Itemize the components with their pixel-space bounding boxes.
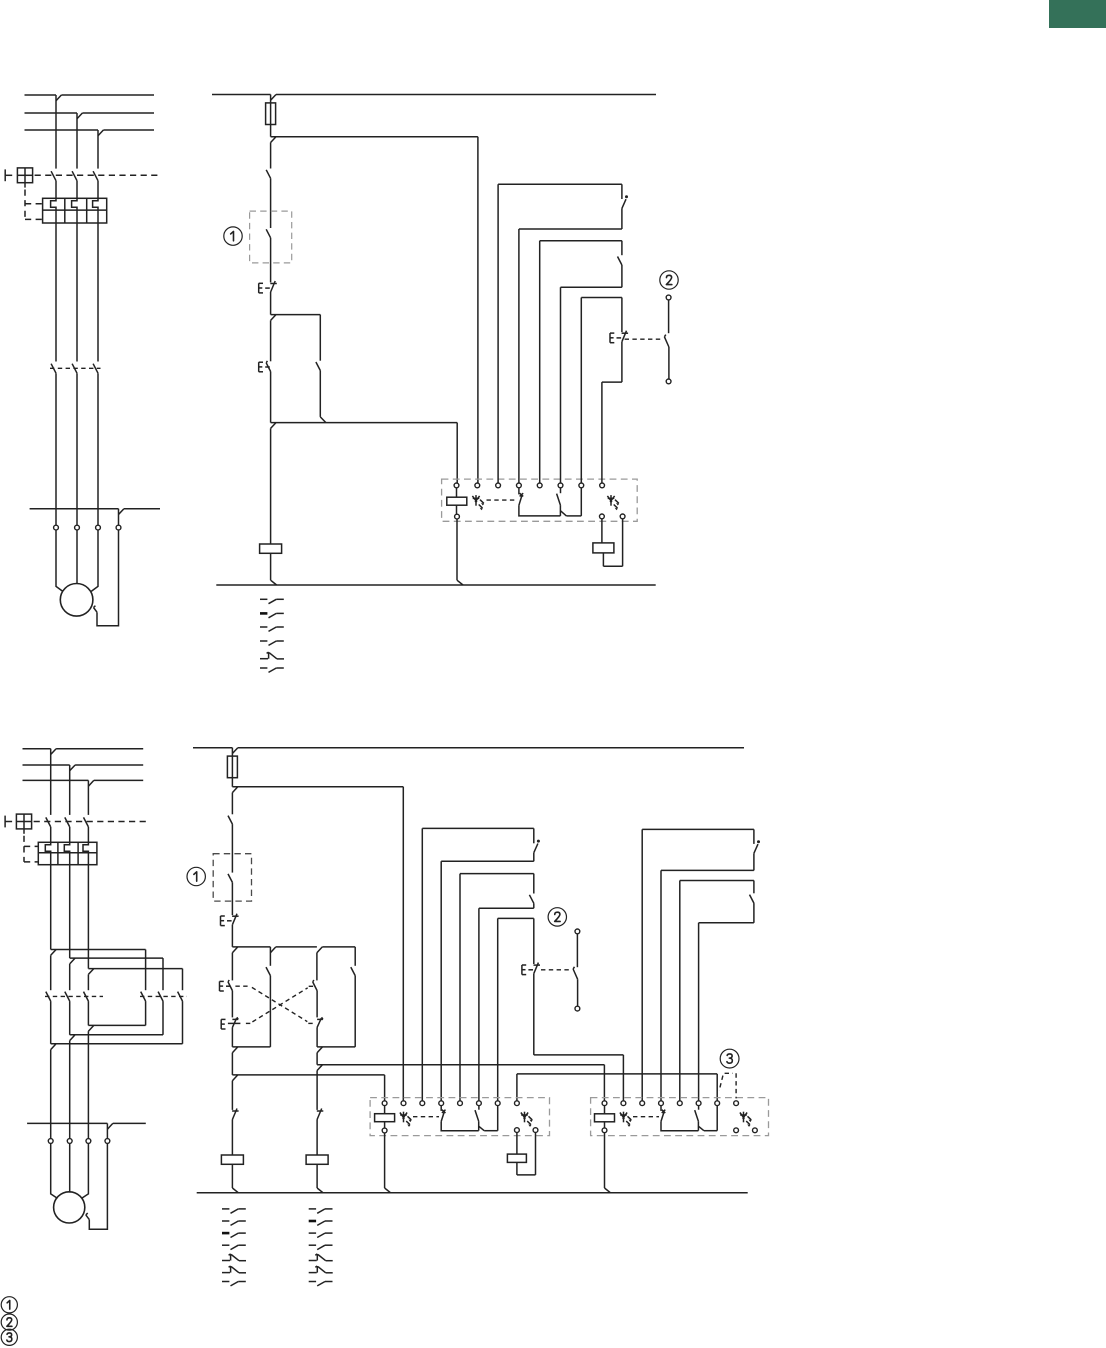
relay changeover contact t4 box1 (bottom) [440, 1106, 442, 1111]
contactor K2 main contact 1 (bottom) [141, 992, 146, 1002]
relay coil inside box (top) [456, 488, 458, 497]
stop2 E label (bottom cascade) [521, 965, 523, 975]
marker circled 1 (bottom) [187, 867, 205, 885]
branch to relay terminal 2 (top) [271, 136, 478, 138]
contactor Q11 main contact 1 (top) [51, 364, 56, 374]
wire phase1 to branch row (bottom) [50, 865, 52, 950]
dashed actuation link to button 2 (top) [625, 338, 662, 340]
dashed actuation inside box (top) [487, 499, 517, 501]
contactor coil Q11 (top) [270, 428, 272, 544]
aux legend K1 row 5 NC (bottom) [222, 1260, 230, 1262]
fuse F0 (top) [270, 95, 272, 103]
wire phase 2 overload to contactor (top) [76, 223, 78, 362]
overload heater element phase 3 (bottom) [83, 842, 88, 864]
auxiliary NO contact box2 cascade (bottom) [753, 881, 755, 894]
branch to relay box1 terminal 2 (bottom) [232, 786, 403, 788]
aux legend K2 row 6 NC (bottom) [309, 1272, 317, 1274]
interlock NC contact A on V3 (bottom) [316, 953, 318, 981]
cascade wire box1 t3 (bottom) [422, 827, 534, 829]
wire fuse to contact (bottom) [231, 793, 233, 815]
forward button E label (bottom) [219, 981, 221, 991]
box2 bottom terminal b (bottom) [753, 1128, 758, 1133]
return row A (bottom) [145, 1001, 147, 1025]
relay contact t6 blade box1 (bottom) [478, 1106, 480, 1110]
wire supply line L3 (top diagram) [25, 129, 99, 131]
wire to motor terminal 4 (top) [30, 508, 119, 510]
wire phase2 to branch row (bottom) [69, 865, 71, 958]
wire tap L1 down to breaker (bottom) [50, 749, 52, 815]
marker circled 3 (bottom) [720, 1049, 739, 1068]
dashed option box 1 (top) [250, 211, 292, 263]
limit contact with dot box2 (bottom) [753, 829, 755, 844]
interlock bottom link V1-V2 (bottom) [232, 1046, 270, 1048]
dashed actuation inside box2 (bottom) [633, 1116, 659, 1118]
relay terminal 1 circle (top) [454, 483, 459, 488]
box1 terminal 5 circle (bottom) [458, 1101, 463, 1106]
contactor K2 main contact 2 (bottom) [158, 992, 163, 1002]
wire phase1 down to contact (bottom) [50, 955, 52, 990]
breaker contact Q1/3 (top) [93, 171, 98, 181]
breaker trip dashed vertical (bottom) [23, 836, 25, 862]
start button NO contact (top) [270, 320, 272, 361]
motor terminal 4 (bottom) [105, 1139, 110, 1144]
relay contact t6 blade box2 (bottom) [698, 1106, 700, 1110]
stop2 NC contact (bottom cascade) [533, 918, 535, 964]
motor lead W (bottom) [82, 1143, 89, 1198]
contactor Q11 main contact 3 (top) [93, 364, 98, 374]
feed wire to box2 terminal 1 (bottom) [317, 1064, 604, 1066]
interlock dashed cross line 1 (bottom) [235, 985, 251, 987]
relay terminal 8 circle (top) [600, 483, 605, 488]
limit contact with dot box1 (bottom) [533, 828, 535, 843]
feed wire stop2 to box2 terminal 2 (bottom) [534, 1054, 624, 1056]
aux legend K2 row 7 NO (bottom) [309, 1281, 316, 1283]
interlock top link V3-V4 (bottom) [322, 946, 355, 948]
control supply rail (bottom) [193, 747, 232, 749]
cascade wire box1 t4 (bottom) [441, 860, 534, 862]
flash indicator symbol 1 (top box) [475, 495, 477, 506]
motor lead U (top) [56, 530, 63, 591]
box2 terminal 1 circle (bottom) [602, 1101, 607, 1106]
wire V3 down to aux contact (bottom) [316, 1071, 318, 1110]
breaker contact Q1/3 (bottom) [84, 817, 89, 827]
control supply rail (top) [212, 94, 271, 96]
relay contact t6 blade (top box) [560, 488, 562, 493]
breaker trip dashed line (top) [35, 174, 160, 176]
auxiliary contact Q11/14 (top) [266, 170, 270, 179]
contactor K2 mechanical link dashes (bottom) [140, 995, 187, 997]
branch row to reverse contactor 2 (bottom) [70, 957, 163, 959]
flash indicator 2 box1 (bottom) [524, 1112, 526, 1123]
box1 terminal 8 circle (bottom) [515, 1101, 520, 1106]
contactor K1 main contact 2 (bottom) [65, 992, 70, 1002]
relay terminal 6 circle (top) [558, 483, 563, 488]
wire V1 down to aux contact (bottom) [231, 1081, 233, 1110]
reset E label (top cascade) [609, 333, 611, 343]
aux contact legend row 6 NO (top) [260, 667, 267, 669]
box1 terminal 6 circle (bottom) [477, 1101, 482, 1106]
wire riser box1 terminal 2 (bottom) [402, 787, 404, 1101]
aux contact legend row 2 NO (top) [260, 612, 267, 615]
interlock dashed cross line 2 (bottom) [246, 1022, 252, 1024]
marker circled 2 (top) [660, 271, 678, 289]
flash indicator 1 box2 (bottom) [623, 1112, 625, 1123]
aux legend K1 row 6 NC (bottom) [222, 1272, 230, 1274]
cascade wire t3 (top) [497, 184, 499, 483]
contactor K1 mechanical link dashes (bottom) [45, 995, 103, 997]
cascade wire t6 (top) [561, 286, 622, 288]
wire tap L3 down to breaker (bottom) [87, 780, 89, 815]
stop button NC contact (top) [270, 283, 277, 285]
wire phase2 rowB to motor (bottom) [69, 1041, 71, 1139]
cascade wire box1 t5 (bottom) [460, 873, 534, 875]
wire phase2 contact to rowB (bottom) [69, 1001, 71, 1035]
relay changeover contact t4 (top box) [518, 488, 520, 495]
relay terminal 5 circle (top) [537, 483, 542, 488]
wire coil feed horizontal (top) [271, 422, 458, 424]
motor M1 circle (bottom) [54, 1192, 85, 1223]
motor terminal 1 (bottom) [48, 1139, 53, 1144]
aux legend K1 row 4 NO (bottom) [222, 1244, 229, 1246]
box1 bottom terminal b (bottom) [533, 1128, 538, 1133]
contactor Q11 mechanical link dashes (top) [50, 367, 101, 369]
circuit-breaker operator symbol (top) [4, 169, 6, 181]
box1 terminal 2 circle (bottom) [401, 1101, 406, 1106]
wire tap L1 down to breaker (top) [55, 95, 57, 169]
contactor coil K1 (bottom) [221, 1155, 243, 1164]
contactor coil K2 (bottom) [306, 1155, 328, 1164]
relay changeover contact t4 box2 (bottom) [660, 1106, 662, 1111]
box2 terminal 2 circle (bottom) [621, 1101, 626, 1106]
remote button 2 (bottom) [575, 929, 580, 934]
self-hold contact V2 branch (bottom) [269, 947, 271, 966]
motor lead V (top) [76, 530, 78, 583]
breaker trip dashed line (bottom) [34, 821, 146, 823]
contactor Q11 main contact 2 (top) [72, 364, 77, 374]
cascade wire box2 t5 (bottom) [680, 880, 754, 882]
stop button NC contact (bottom) [232, 915, 239, 917]
aux NC contact above coil K1 (bottom) [232, 1110, 239, 1112]
relay coil inside box1 (bottom) [384, 1106, 386, 1114]
start button E label (top) [258, 362, 260, 372]
flash indicator symbol 2 (top box) [610, 495, 612, 506]
cascade wire box1 t6 (bottom) [479, 907, 534, 909]
cascade wire box2 t4 (bottom) [661, 869, 754, 871]
aux legend K2 row 3 NO (bottom) [309, 1232, 316, 1234]
marker circled 1 (top) [224, 227, 242, 245]
breaker contact Q1/2 (bottom) [65, 817, 70, 827]
control bottom rail (bottom) [197, 1192, 748, 1194]
motor lead V (bottom) [69, 1143, 71, 1192]
contact inside option box (bottom) [228, 874, 232, 883]
feed wire to box1 terminal 1 (bottom) [232, 1074, 384, 1076]
box1 bottom terminal a (bottom) [515, 1128, 520, 1133]
breaker contact Q1/2 (top) [72, 171, 77, 181]
box2 terminal 3 circle (bottom) [640, 1101, 645, 1106]
motor terminal 3 (bottom) [86, 1139, 91, 1144]
wire supply line L1 (bottom diagram) [23, 748, 51, 750]
marker circled 2 (bottom) [548, 908, 566, 926]
breaker contact Q1/1 (top) [51, 171, 56, 181]
relay terminal 2 circle (top) [475, 483, 480, 488]
cascade wire t5 (top) [539, 241, 541, 483]
wire phase 1 overload to contactor (top) [55, 223, 57, 362]
dashed option box 1 (bottom) [213, 854, 251, 901]
box1 terminal 4 circle (bottom) [439, 1101, 444, 1106]
reset NC contact (top cascade) [621, 298, 623, 333]
motor terminal 2 (top) [75, 525, 80, 530]
branch row to reverse contactor 1 (bottom) [51, 949, 146, 951]
cascade wire box1 t7 (bottom) [498, 917, 534, 919]
wire riser terminal 2 (top) [477, 137, 479, 483]
wire supply line L3 (bottom diagram) [23, 779, 89, 781]
aux legend K2 row 5 NC (bottom) [309, 1260, 317, 1262]
interlock top link V1-V2 (bottom) [232, 946, 270, 948]
box2 terminal 5 circle (bottom) [677, 1101, 682, 1106]
relay device dashed box 2 (bottom) [591, 1098, 769, 1136]
wire supply line L1 (top diagram) [25, 94, 57, 96]
aux legend K1 row 1 NO (bottom) [222, 1208, 229, 1210]
motor terminal 2 (bottom) [67, 1139, 72, 1144]
wire V3 to feed corner (bottom) [316, 1053, 318, 1065]
aux legend K2 row 2 NO (bottom) [309, 1220, 316, 1223]
control bottom rail (top) [216, 584, 655, 586]
dashed actuation link to button 2 (bottom) [541, 969, 569, 971]
junction self-hold branch top (top) [271, 314, 321, 316]
wire fuse to contact (top) [270, 143, 272, 169]
relay coil inside box2 (bottom) [604, 1106, 606, 1114]
wire phase3 rowA to motor (bottom) [87, 1031, 89, 1138]
aux legend K1 row 2 NO (bottom) [222, 1220, 229, 1222]
remote button 2 (top) [666, 295, 671, 300]
aux contact legend row 3 NO (top) [260, 626, 267, 628]
reset button 3 dashed actuation (bottom) [725, 1072, 733, 1074]
return row B (bottom) [162, 1001, 164, 1035]
box2 terminal 6 circle (bottom) [696, 1101, 701, 1106]
motor lead U (bottom) [51, 1143, 58, 1198]
motor terminal 3 (top) [96, 525, 101, 530]
relay terminal 7 circle (top) [579, 483, 584, 488]
self-hold contact Q11/13-14 branch (top) [319, 315, 321, 361]
wire riser relay terminal 1 (top) [456, 423, 458, 483]
cascade wire box2 t6 (bottom) [699, 922, 754, 924]
return row C (bottom) [182, 1001, 184, 1044]
green page tab [1049, 0, 1106, 28]
breaker contact Q1/1 (bottom) [46, 817, 51, 827]
wire supply line L2 (top diagram) [25, 112, 78, 114]
motor terminal 4 (top) [116, 525, 121, 530]
branch row to reverse contactor 3 (bottom) [88, 968, 182, 970]
auxiliary NO contact box1 cascade (bottom) [533, 874, 535, 894]
wire supply line L2 (bottom diagram) [23, 764, 70, 766]
wire phase1 contact to rowC (bottom) [50, 1001, 52, 1044]
relay bottom terminal a (top box) [600, 514, 605, 519]
box1 terminal 3 circle (bottom) [420, 1101, 425, 1106]
overload heater element phase 3 (top) [93, 198, 98, 223]
link wire box1 t8 to box2 t7 (bottom) [517, 1073, 717, 1075]
limit contact with dot (top) [621, 184, 623, 199]
interlock top link V2-V3 (bottom) [276, 946, 317, 948]
reset coil loop box1 (bottom) [516, 1133, 518, 1155]
aux contact legend row 4 NO (top) [260, 640, 267, 642]
overload relay box (top) [43, 198, 107, 223]
motor terminal 1 (top) [54, 525, 59, 530]
box2 terminal 4 circle (bottom) [659, 1101, 664, 1106]
cascade wire t7 (top) [580, 298, 582, 484]
box2 terminal 8 circle (bottom) [734, 1101, 739, 1106]
wire phase1 rowC to motor (bottom) [50, 1050, 52, 1139]
wire phase3 to branch row (bottom) [87, 865, 89, 969]
wire phase2 down to contact (bottom) [69, 964, 71, 990]
aux legend K2 row 4 NO (bottom) [309, 1244, 316, 1246]
flash indicator 1 box1 (bottom) [403, 1112, 405, 1123]
aux legend K1 row 3 NO (bottom) [222, 1232, 229, 1235]
relay device dashed box 1 (bottom) [370, 1098, 549, 1136]
wire tap L2 down to breaker (bottom) [69, 765, 71, 815]
wire tap L2 down to breaker (top) [76, 113, 78, 169]
cascade wire box2 t3 (bottom) [642, 828, 754, 830]
self-hold contact V4 branch (bottom) [354, 947, 356, 966]
box2 bottom terminal a (bottom) [734, 1128, 739, 1133]
aux legend K1 row 7 NO (bottom) [222, 1281, 229, 1283]
box1 terminal 1 circle (bottom) [382, 1101, 387, 1106]
footnote marker circled 2 [1, 1314, 17, 1330]
cascade wire t4 (top) [519, 228, 622, 230]
reset coil loop (top box) [601, 519, 603, 543]
wire phase 3 overload to contactor (top) [97, 223, 99, 362]
overload relay box (bottom) [38, 842, 97, 864]
aux NC contact above coil K2 (bottom) [317, 1110, 324, 1112]
footnote marker circled 3 [1, 1329, 17, 1345]
wire phase3 contact to rowA (bottom) [87, 1001, 89, 1025]
relay terminal 4 circle (top) [517, 483, 522, 488]
aux legend K2 row 1 NO (bottom) [309, 1208, 316, 1210]
overload heater element phase 2 (bottom) [64, 842, 69, 864]
motor lead thermistor (bottom) [89, 1143, 107, 1229]
wire tap L3 down to breaker (top) [97, 130, 99, 169]
relay device dashed box (top) [442, 479, 638, 521]
contactor K2 main contact 3 (bottom) [178, 992, 183, 1002]
auxiliary contact (bottom main) [228, 816, 232, 825]
circuit-breaker operator symbol (bottom) [4, 816, 6, 828]
contactor K1 main contact 1 (bottom) [46, 992, 51, 1002]
interlock bottom link V3-V4 (bottom) [317, 1046, 355, 1048]
wire phase3 down to contact (bottom) [87, 974, 89, 990]
wire V1 to feed corner (bottom) [231, 1053, 233, 1075]
overload heater element phase 1 (top) [51, 198, 56, 223]
relay bottom terminal b (top box) [620, 514, 625, 519]
dashed actuation inside box1 (bottom) [413, 1116, 439, 1118]
auxiliary NO contact cascade B (top) [621, 241, 623, 256]
fuse F0 (bottom) [231, 748, 233, 756]
footnote marker circled 1 [1, 1297, 17, 1313]
motor M1 circle (top) [60, 584, 93, 617]
motor lead thermistor (top) [97, 530, 119, 626]
flash indicator 2 box2 (bottom) [743, 1112, 745, 1123]
reverse button E label (bottom) [220, 1019, 222, 1029]
interlock NC contact B on V3 (bottom) [317, 1018, 323, 1020]
stop button E label (top) [258, 283, 260, 293]
wire to motor terminal 4 (bottom) [27, 1122, 107, 1124]
aux contact legend row 1 NO (top) [260, 598, 267, 600]
relay terminal 3 circle (top) [496, 483, 501, 488]
cascade wire t8 (top) [602, 381, 622, 383]
overload heater element phase 2 (top) [72, 198, 77, 223]
motor lead W (top) [91, 530, 98, 591]
forward button NO contact on V1 (bottom) [231, 953, 233, 981]
aux contact legend row 5 NC (top) [260, 658, 268, 660]
box1 terminal 7 circle (bottom) [495, 1101, 500, 1106]
breaker trip dashed vertical to overload (top) [24, 190, 26, 220]
stop button E label (bottom) [220, 916, 222, 926]
contactor K1 main contact 3 (bottom) [84, 992, 89, 1002]
box2 terminal 7 circle (bottom) [715, 1101, 720, 1106]
contact inside option box (top) [266, 229, 270, 238]
overload heater element phase 1 (bottom) [45, 842, 50, 864]
reverse button NC contact on V1 (bottom) [232, 1018, 238, 1020]
